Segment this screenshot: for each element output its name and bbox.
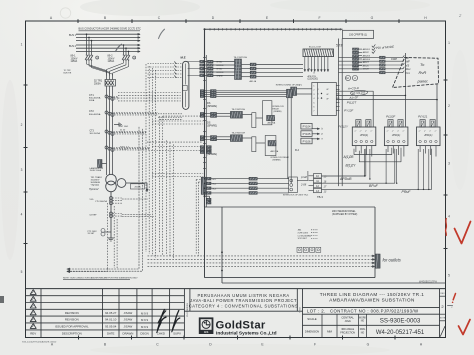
svg-text:2-08: 2-08 [300, 183, 307, 187]
svg-text:5: 5 [21, 270, 23, 274]
svg-text:(SPARE): (SPARE) [273, 158, 281, 161]
svg-text:CRP: CRP [391, 57, 397, 61]
distribution panel box [352, 127, 376, 146]
svg-text:89-2: 89-2 [108, 55, 114, 58]
feeder chain1 flank blocks [200, 113, 204, 115]
svg-text:BUS 1: BUS 1 [69, 34, 77, 37]
customers column [189, 289, 191, 312]
lightning arrester LA [98, 160, 103, 168]
marshalling bus wire [204, 29, 206, 207]
svg-text:30VA: 30VA [89, 99, 95, 102]
svg-text:PROJECTION: PROJECTION [340, 332, 355, 334]
duct left dashed hooks [148, 63, 183, 65]
panel drops to control wires [364, 149, 366, 176]
svg-text:P(1)2T: P(1)2T [347, 101, 358, 105]
interlock meter block [289, 177, 298, 193]
svg-text:1: 1 [21, 43, 23, 47]
red exclamation [453, 294, 455, 300]
relay chain 1 wires [211, 112, 217, 114]
cable spec text [298, 230, 313, 241]
20kv medium panel outline [205, 206, 376, 208]
scan edge mark left [0, 296, 4, 303]
svg-text:3: 3 [21, 168, 23, 172]
transformer secondary wire to panel [126, 183, 147, 192]
extra dashed verticals [159, 116, 161, 253]
svg-text:2000A: 2000A [134, 186, 141, 189]
panel link level 1 [354, 148, 392, 155]
extra dashed taps row [152, 120, 203, 122]
svg-text:TB-2 9W23 DH: TB-2 9W23 DH [232, 133, 246, 135]
svg-text:G: G [367, 343, 370, 347]
dashed riser bundle A [145, 64, 147, 252]
scale row [303, 313, 440, 315]
top rail wire [205, 28, 343, 30]
feeder lower blocks [206, 198, 211, 200]
goldstar logo [199, 317, 214, 334]
svg-text:2ⁿ: 2ⁿ [345, 76, 348, 80]
svg-text:NO: NO [361, 332, 365, 334]
red checkmark mid right [455, 222, 471, 244]
supervisor signature [173, 311, 180, 330]
bottom rail wire [222, 282, 446, 284]
interlock rows to 20kv tr1 [201, 177, 206, 194]
svg-text:89-1: 89-1 [71, 55, 77, 58]
cprptb drop pair [338, 39, 340, 187]
third left stub [67, 268, 108, 272]
svg-text:a⁴: a⁴ [403, 130, 405, 133]
CT1 secondary dashes [108, 96, 118, 98]
svg-text:a⁴: a⁴ [429, 130, 431, 133]
svg-text:89TN2: 89TN2 [217, 61, 223, 63]
svg-text:REV: REV [440, 293, 445, 295]
svg-text:BC2200: BC2200 [217, 65, 224, 67]
svg-text:93.09.04: 93.09.04 [105, 325, 117, 329]
feeder bottom junction [204, 195, 206, 197]
TB-2 label boxes left of panels [301, 123, 312, 129]
grid letters bottom [51, 343, 423, 347]
svg-text:JPD(1): JPD(1) [424, 133, 432, 137]
svg-text:AMBARAWA/BAWEN SUBSTATION: AMBARAWA/BAWEN SUBSTATION [329, 298, 415, 303]
svg-text:AB1 P1A: AB1 P1A [271, 150, 279, 153]
relay box pin dots [321, 93, 322, 94]
svg-text:BUS CONDUCTOR (ACSR 240MM2 DOV: BUS CONDUCTOR (ACSR 240MM2 DOVE 2CCT) ET… [79, 28, 142, 31]
svg-text:51G: 51G [90, 199, 94, 201]
svg-text:DWG: DWG [360, 329, 366, 331]
rev column cells [440, 295, 446, 297]
svg-text:F: F [318, 16, 320, 20]
svg-text:(SPARE): (SPARE) [207, 125, 217, 128]
svg-text:BPuF: BPuF [369, 184, 379, 188]
svg-text:INTERLOCK OF 20KV TR-1: INTERLOCK OF 20KV TR-1 [283, 194, 309, 196]
ct secondary dashed bundle down [107, 203, 109, 268]
5.TB terminal column [353, 48, 359, 50]
svg-text:5.TB: 5.TB [336, 44, 344, 48]
terminal cluster group 1 on bus [208, 60, 214, 62]
CT2 secondary dashes [108, 112, 158, 114]
dashed pair near feeder [195, 180, 197, 254]
disconnect switch 89-1 drops [86, 34, 88, 54]
svg-text:a⁴: a⁴ [397, 130, 399, 133]
dashed left pair down [67, 127, 139, 269]
svg-text:20KV MEDIUM PANEL: 20KV MEDIUM PANEL [332, 210, 356, 213]
svg-text:3: 3 [448, 162, 450, 166]
bus merge wires [87, 60, 107, 75]
handwritten contact labels [406, 56, 412, 75]
transformer neutral wire [110, 192, 112, 232]
svg-text:a⁴: a⁴ [392, 130, 394, 133]
svg-text:B(1)2Y: B(1)2Y [346, 163, 357, 167]
svg-text:(SUPPLIED BY OTHER): (SUPPLIED BY OTHER) [332, 214, 357, 216]
150 cprptb box [343, 30, 374, 38]
svg-text:2: 2 [21, 123, 23, 127]
title box text [439, 289, 441, 338]
svg-text:F: F [314, 343, 316, 347]
dashed riser bundle B [166, 140, 168, 254]
control wire level 5 [322, 149, 432, 189]
TB-2 arrows [312, 128, 320, 130]
svg-text:2: 2 [450, 305, 453, 309]
svg-text:DSGN: DSGN [140, 332, 148, 336]
svg-text:ISSUED FOR APPROVAL: ISSUED FOR APPROVAL [55, 325, 89, 329]
svg-text:5 & 2-0: 5 & 2-0 [120, 149, 128, 151]
svg-text:1CX3 SET: 1CX3 SET [298, 238, 308, 240]
feeder group1 right labels [217, 61, 224, 77]
svg-text:DATE: DATE [107, 332, 115, 336]
customer name box [296, 289, 298, 312]
svg-text:NOTE: NOTE [440, 318, 446, 320]
duct lower dashed taps [152, 146, 203, 148]
svg-text:300-150/5A: 300-150/5A [90, 132, 101, 135]
hand-drawn dashed box to RVR panel [393, 58, 439, 88]
revision table [40, 289, 42, 338]
svg-text:for outlets: for outlets [383, 258, 402, 263]
distribution panel box [417, 127, 441, 146]
svg-text:A=CD-R: A=CD-R [347, 86, 359, 91]
svg-text:BC2200: BC2200 [217, 72, 224, 74]
svg-text:PY12F: PY12F [344, 109, 353, 113]
svg-text:DESCRIPTION: DESCRIPTION [62, 332, 82, 336]
svg-text:CONTRACT NO : 008.PJP/922/1993: CONTRACT NO : 008.PJP/922/1993/W [330, 309, 419, 314]
revision rows text [30, 311, 181, 336]
svg-text:PY106: PY106 [303, 139, 311, 143]
svg-text:M 9 9: M 9 9 [141, 318, 148, 322]
svg-text:a⁴: a⁴ [370, 130, 372, 133]
svg-text:YNyn0(d): YNyn0(d) [91, 185, 100, 187]
svg-text:AB1-1A: AB1-1A [250, 80, 257, 83]
svg-text:GoldStar: GoldStar [216, 319, 266, 331]
svg-text:TITLE: TITLE [300, 306, 302, 312]
incoming cable in panel [221, 207, 223, 283]
switch 89-1 symbol [85, 55, 88, 60]
feeder chain2 flank blocks [200, 136, 204, 138]
svg-text:a⁴: a⁴ [355, 130, 357, 133]
handwritten marks near 5tb [345, 75, 350, 80]
dashed pair into duct lower [158, 113, 183, 115]
svg-text:DIMENSION: DIMENSION [305, 330, 319, 333]
feeder cubicle squares [297, 247, 302, 252]
pencil tick upper left [116, 44, 122, 51]
svg-text:a⁴: a⁴ [435, 130, 437, 133]
bus junction dots at taps [204, 61, 206, 63]
svg-text:NO: NO [361, 321, 365, 323]
svg-text:M 9 9: M 9 9 [141, 325, 148, 329]
riser from interlock [297, 180, 308, 182]
drawing border frame [26, 21, 446, 338]
secondary rating box [131, 184, 145, 189]
handwritten check marks near 5tb [372, 45, 375, 48]
relay chain 1 link [242, 114, 251, 116]
panel dashed wires [148, 255, 373, 257]
interlock relay box 1 [263, 101, 272, 125]
strip drop wires [304, 57, 306, 72]
svg-text:BUS 2: BUS 2 [69, 45, 77, 48]
dashed staircase from CT5 [122, 198, 148, 200]
svg-text:P(1)2Y: P(1)2Y [338, 125, 349, 129]
duct taps group1 [188, 61, 205, 63]
svg-text:SPARE: SPARE [217, 74, 224, 77]
svg-text:150KV 10KA: 150KV 10KA [90, 169, 102, 172]
svg-text:150 CPRPTB (1): 150 CPRPTB (1) [349, 34, 367, 37]
title block top edge [26, 288, 446, 290]
svg-text:94.05.27: 94.05.27 [105, 311, 117, 315]
feeder mid cluster extra [200, 146, 204, 148]
svg-text:J/SAW: J/SAW [124, 318, 133, 322]
relay box output wires to panels [336, 91, 373, 126]
pencil dash 2 [448, 305, 453, 307]
ct1 dashed links to duct [118, 92, 181, 94]
revision triangles [30, 290, 36, 295]
paper smudges [80, 0, 200, 16]
svg-text:a⁴: a⁴ [387, 130, 389, 133]
svg-text:AB5201: AB5201 [363, 48, 371, 51]
svg-text:Industrial Systems Co.,Ltd: Industrial Systems Co.,Ltd [216, 331, 277, 337]
svg-text:BC1: BC1 [213, 179, 217, 181]
svg-text:AB52T: AB52T [363, 61, 370, 64]
svg-text:a⁴: a⁴ [419, 130, 421, 133]
svg-text:BC-DC-COM: BC-DC-COM [309, 47, 321, 49]
svg-text:M 9 9: M 9 9 [141, 311, 148, 315]
distribution panel box [384, 127, 408, 146]
svg-text:A(1)2B: A(1)2B [343, 155, 355, 159]
tb3 cell stubs [309, 175, 314, 177]
svg-text:G: G [371, 16, 374, 20]
svg-text:WORK: WORK [359, 318, 367, 320]
svg-text:M.E: M.E [181, 56, 186, 60]
svg-text:(SPARE): (SPARE) [207, 105, 217, 108]
svg-text:CHKD: CHKD [157, 332, 165, 336]
svg-text:REVISION: REVISION [65, 311, 79, 315]
svg-text:2: 2 [448, 104, 450, 108]
svg-text:3X SET: 3X SET [88, 233, 96, 235]
svg-text:800-400/5A: 800-400/5A [89, 113, 101, 116]
svg-text:J/SAW: J/SAW [124, 325, 133, 329]
svg-text:CATEGORY 4 : CONVENTIONAL SUBS: CATEGORY 4 : CONVENTIONAL SUBSTATIONS [189, 303, 298, 308]
svg-text:J/SAW: J/SAW [124, 311, 133, 315]
svg-text:Cro: Cro [406, 71, 411, 75]
svg-text:GS: GS [204, 330, 208, 334]
relay chain 2 wires [211, 136, 217, 138]
svg-text:89TN2: 89TN2 [217, 68, 223, 70]
svg-text:SS5-D-43(297X420)A3SIZE-00000: SS5-D-43(297X420)A3SIZE-00000 [22, 341, 57, 344]
control wire level 3 [322, 149, 366, 176]
transformer TR1 winding circles [106, 174, 117, 185]
svg-text:PY105: PY105 [303, 132, 311, 136]
svg-text:INTERLOCKING OF 20KV: INTERLOCKING OF 20KV [276, 85, 301, 87]
svg-text:64 REF: 64 REF [90, 214, 98, 216]
svg-text:CT2: CT2 [89, 110, 94, 113]
grid letters top [50, 16, 427, 20]
panel outgoing strip [375, 254, 380, 268]
disconnect switch 89-2 drops [123, 45, 125, 55]
checker signature [158, 310, 167, 331]
svg-text:REVISION: REVISION [65, 318, 79, 322]
DS spare group wires [211, 90, 217, 92]
svg-text:CU 3X240MM2: CU 3X240MM2 [298, 235, 313, 237]
red squiggle on border [445, 219, 448, 236]
svg-text:Hytransf: Hytransf [89, 188, 99, 191]
svg-text:SS-930E-0003: SS-930E-0003 [380, 317, 421, 324]
title column [302, 289, 304, 338]
relay box inside handwritten pins [317, 87, 329, 100]
svg-text:1250A: 1250A [108, 60, 115, 63]
TB-1 outgoing wires [242, 64, 251, 66]
svg-text:2000A: 2000A [94, 82, 101, 85]
interlock relay box 2 [265, 136, 276, 156]
svg-text:a⁴: a⁴ [360, 130, 362, 133]
lot and contract row [303, 307, 440, 309]
svg-text:3RD ANGLE: 3RD ANGLE [341, 328, 354, 331]
svg-text:REV: REV [30, 332, 36, 336]
svg-text:BC2: BC2 [213, 184, 217, 186]
svg-text:AB1 P1A: AB1 P1A [268, 121, 276, 124]
svg-text:W4-20-05217-451: W4-20-05217-451 [376, 330, 425, 336]
current transformer CT4 cluster [105, 146, 108, 149]
svg-text:NOTE : BUS CONDUCTOR DATA SHOW: NOTE : BUS CONDUCTOR DATA SHOWN ARE FOR … [63, 277, 138, 280]
panel link level 2 [359, 148, 401, 162]
svg-text:PRuF: PRuF [402, 190, 412, 194]
svg-text:89T GS1: 89T GS1 [120, 126, 129, 128]
svg-text:CENTRAL: CENTRAL [341, 316, 354, 320]
aux contact column [380, 56, 386, 58]
mid riser pair [287, 98, 289, 179]
svg-text:panel.: panel. [417, 79, 429, 84]
svg-text:APDuB: APDuB [339, 177, 352, 181]
pencil tick mid [159, 29, 165, 38]
control wire level 4 [322, 149, 395, 183]
svg-text:a⁴: a⁴ [365, 130, 367, 133]
svg-text:DRAWN: DRAWN [122, 332, 133, 336]
svg-text:1: 1 [448, 41, 450, 45]
neutral ground [110, 232, 112, 238]
svg-text:TB-3: TB-3 [317, 195, 323, 199]
switch 89-2 symbol [122, 55, 125, 60]
svg-text:SCALE: SCALE [307, 317, 317, 321]
dashed taps to bus mid [163, 115, 204, 117]
svg-text:AB52C: AB52C [363, 51, 370, 54]
punch hole [60, 8, 70, 18]
svg-text:A1=2F: A1=2F [348, 95, 358, 100]
svg-text:RvR: RvR [419, 70, 427, 75]
svg-text:AB5203: AB5203 [363, 55, 371, 58]
svg-text:A: A [353, 76, 356, 80]
svg-text:P(Y)21: P(Y)21 [418, 115, 428, 119]
svg-text:CT1: CT1 [89, 94, 94, 97]
svg-text:SUPV: SUPV [173, 332, 181, 336]
svg-text:TB-1 9W23 DH: TB-1 9W23 DH [234, 57, 248, 59]
relay panel box [312, 83, 337, 116]
svg-text:AB52R: AB52R [363, 68, 370, 71]
rail tick marks [209, 28, 211, 30]
svg-text:JAVA: JAVA [345, 319, 352, 323]
svg-text:JPD(1): JPD(1) [360, 133, 368, 137]
svg-text:BC3: BC3 [213, 189, 217, 191]
svg-text:MM: MM [327, 329, 332, 333]
svg-text:B-4: B-4 [295, 149, 300, 152]
svg-text:PY104: PY104 [303, 125, 311, 129]
svg-text:4: 4 [448, 215, 450, 219]
grid numbers left [21, 43, 23, 275]
feeder ds group flank blocks [200, 90, 204, 92]
svg-text:JPD(1): JPD(1) [392, 133, 400, 137]
feeder cluster ticks [203, 57, 206, 59]
svg-text:(SPARE): (SPARE) [274, 110, 282, 113]
svg-text:CT5 2000/5A: CT5 2000/5A [95, 200, 107, 203]
svg-text:p=a8: p=a8 [300, 175, 307, 179]
svg-text:4: 4 [21, 213, 23, 217]
feeder left-side blocks group1 [200, 60, 204, 62]
red checkmark bottom right [459, 320, 471, 335]
svg-text:XLPE 20KV: XLPE 20KV [298, 232, 309, 234]
right riser wires [404, 53, 406, 127]
svg-text:P(1)2F: P(1)2F [386, 115, 395, 119]
svg-text:1250A: 1250A [71, 60, 78, 63]
svg-text:THREE LINE DIAGRAM --- 150/20K: THREE LINE DIAGRAM --- 150/20KV TR.1 [320, 292, 424, 297]
grid numbers right [448, 41, 450, 278]
terminal col at right of DS group [287, 89, 293, 98]
svg-text:52 TR1: 52 TR1 [94, 80, 103, 83]
svg-text:94.01.10: 94.01.10 [105, 318, 117, 322]
TB-3 label boxes [314, 174, 322, 178]
relay chain 2 link [242, 137, 251, 139]
svg-text:5: 5 [448, 274, 450, 278]
breaker to CT1 wires [106, 86, 108, 175]
svg-text:(150/150): (150/150) [308, 78, 318, 81]
svg-text:LOT : 2.: LOT : 2. [307, 309, 326, 314]
svg-text:AB5204: AB5204 [363, 58, 371, 61]
svg-text:a⁴: a⁴ [424, 130, 426, 133]
svg-text:BUS TIE: BUS TIE [64, 73, 72, 75]
svg-text:TB-2 9W23 DH: TB-2 9W23 DH [232, 109, 246, 111]
